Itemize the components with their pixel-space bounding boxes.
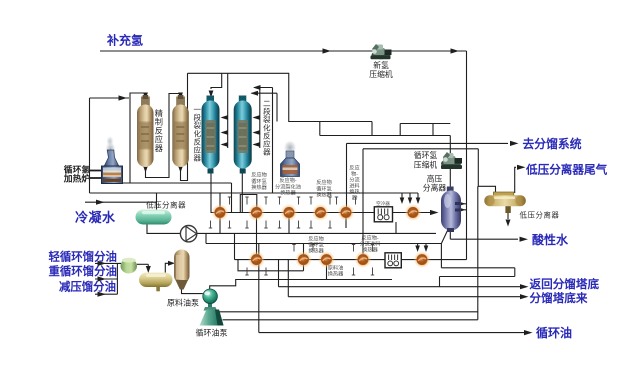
wire: TR2 bottom outlet down	[240, 168, 245, 175]
wire: E8 bottom stub	[326, 265, 328, 280]
svg-text:减压馏分油: 减压馏分油	[59, 279, 116, 293]
wire: exchanger train line row 1	[211, 212, 431, 214]
exchanger E4 effluent/recycle-H2 exchanger	[312, 204, 329, 221]
vessel V3 feed tank (horizontal)	[139, 273, 173, 292]
svg-text:酸性水: 酸性水	[532, 232, 569, 247]
svg-text:器: 器	[194, 154, 202, 163]
air cooler AC2 low-pressure air cooler	[385, 253, 401, 268]
svg-text:反: 反	[155, 125, 163, 135]
wire: three drop arrows into last exchanger	[401, 193, 403, 198]
wire: exchanger train line row 2	[235, 259, 467, 261]
wire: LP separator bottom outlet	[507, 210, 509, 219]
wire: riser into low-pressure flash drum	[156, 193, 158, 210]
wire: header jog down to mid header	[319, 122, 321, 136]
svg-text:分馏塔底来: 分馏塔底来	[530, 291, 588, 305]
wire: recycle oil line (循环油)	[258, 244, 260, 333]
wire: furnace inlet stubs	[90, 170, 102, 172]
exchanger E5 effluent/feed exchanger	[337, 204, 354, 221]
wire: air cooler 1 bottom connector	[395, 222, 397, 233]
furnace F2 feed heater	[281, 138, 300, 177]
svg-text:换热器: 换热器	[316, 191, 332, 199]
wire: long effluent header y=193	[90, 192, 419, 194]
wire: reactor feed line with arrow	[90, 97, 130, 99]
wire: charge pump line to exchangers	[210, 280, 392, 290]
furnace F1 recycle hydrogen heater (循环氢加热炉)	[102, 135, 123, 184]
vessel V6 low pressure separator (horizontal, 低压分离器)	[484, 192, 526, 213]
wire: bottom right sub-headers	[441, 267, 514, 269]
wire: loop over exchanger E2	[240, 195, 256, 213]
compressor C2 recycle hydrogen compressor (循环氢压缩机)	[441, 152, 462, 169]
svg-text:加热炉: 加热炉	[63, 173, 91, 184]
svg-text:器: 器	[155, 144, 163, 153]
svg-text:低压分离器尾气: 低压分离器尾气	[525, 163, 608, 177]
reactor TR1 first-stage hydrocracking reactor (一段裂化反应器)	[202, 96, 220, 174]
wire: row2 sub-line y=270.8	[238, 260, 304, 271]
svg-text:换热: 换热	[349, 188, 360, 196]
svg-text:反应物: 反应物	[251, 171, 267, 179]
reactor TR2 second-stage hydrocracking reactor (二段裂化反应器)	[234, 96, 252, 174]
svg-text:反应物-: 反应物-	[361, 234, 379, 242]
wire: TR1 bottom outlet down to exchanger train	[209, 168, 214, 175]
svg-text:反应物-: 反应物-	[279, 176, 297, 184]
vessel V5 high pressure separator (高压分离器)	[441, 187, 461, 233]
wire: recycle oil pump lines	[219, 311, 478, 313]
wire: compressor suction box	[400, 123, 450, 125]
svg-text:轻循环馏分油: 轻循环馏分油	[49, 249, 117, 263]
svg-text:压缩机: 压缩机	[414, 160, 438, 170]
svg-text:高压: 高压	[427, 174, 443, 184]
exchanger E2 reactor-effluent/recycle-H2 exchanger	[248, 204, 265, 221]
svg-text:低压分离器: 低压分离器	[520, 211, 560, 220]
svg-text:分流: 分流	[349, 176, 359, 184]
wire: quench line TR2 with injection arrows	[259, 88, 261, 149]
wire: R1 top inlet arrow	[145, 93, 147, 94]
air cooler AC1 high-pressure air cooler	[374, 207, 392, 222]
wire: furnace outlet header	[122, 182, 232, 184]
exchanger E8 effluent/fractionator-bottoms exchanger	[295, 251, 312, 268]
wire: feed manifold vertical	[116, 263, 118, 294]
exchanger E1 effluent exchanger	[211, 204, 228, 221]
svg-text:制: 制	[155, 117, 163, 127]
svg-text:循环氢: 循环氢	[414, 150, 438, 160]
svg-text:压缩机: 压缩机	[369, 69, 393, 79]
wire: heavy cycle oil feed (重循环馏分油)	[95, 278, 117, 280]
tiny label: 反应物循环氢换热器 (row1 left)	[251, 164, 380, 278]
drum V2 feed surge drum	[121, 258, 138, 274]
exchanger E3 effluent exchanger	[280, 204, 297, 221]
wire: return-to-fractionator line (返回分馏塔底)	[278, 260, 280, 287]
svg-text:低压分离器: 低压分离器	[146, 200, 186, 210]
wire: inter-row connectors	[219, 193, 221, 207]
wire: flash drum bottom outlet to charge pump	[147, 224, 181, 233]
wire: R2 bottom outlet riser to cracking header	[178, 166, 183, 173]
svg-text:分流进料: 分流进料	[360, 239, 381, 247]
wire: to-fractionation line (去分馏系统)	[347, 142, 509, 144]
svg-text:空冷器: 空冷器	[376, 200, 390, 207]
wire: compressor suction/discharge verticals	[449, 136, 451, 157]
svg-text:原料油泵: 原料油泵	[167, 298, 199, 308]
wire: drop arrows into E10	[417, 244, 419, 247]
wire: low pressure separator feed line	[363, 148, 478, 150]
wire: HP separator gas nozzles	[458, 203, 467, 205]
wire: exchanger tie-in stubs	[209, 197, 374, 275]
wire: surge vessel outlet to feed pump	[182, 289, 203, 294]
wire: LP separator offgas riser (低压分离器尾气)	[515, 167, 516, 193]
svg-text:原料油: 原料油	[328, 264, 344, 272]
svg-text:换热器: 换热器	[308, 246, 324, 254]
wire: feed drop into cracking reactor TR1	[211, 73, 222, 89]
svg-text:反应物: 反应物	[316, 178, 332, 186]
svg-text:补充氢: 补充氢	[106, 33, 143, 48]
pump P1 condensate pump symbol	[180, 226, 196, 242]
svg-text:分流裂化油: 分流裂化油	[275, 182, 301, 190]
svg-text:循环氢: 循环氢	[251, 177, 267, 185]
wire: R1 bottom outlet to R2 top	[143, 166, 148, 173]
wire: light cycle oil feed (轻循环馏分油)	[95, 262, 121, 264]
pump P2 feed pump (原料油泵)	[203, 289, 218, 311]
wire: parallel line y=243.5	[205, 233, 207, 243]
wire: furnace outlet riser to reactor R1	[130, 93, 146, 183]
svg-text:换热器: 换热器	[328, 269, 344, 277]
wire: from-fractionator-bottom line (分馏塔底来)	[287, 260, 289, 297]
wire: HP separator liquid drop	[441, 231, 447, 268]
wire: riser from make-up header down right side	[466, 51, 468, 260]
wire: quench line TR1 with injection arrows	[227, 73, 229, 148]
svg-text:器: 器	[263, 148, 271, 157]
wire: charge pump discharge long line	[196, 232, 436, 234]
wire: TR2 top inlet line 2	[252, 92, 278, 94]
wire: drum outlet with down arrow	[137, 263, 149, 265]
svg-text:进料: 进料	[349, 182, 359, 190]
svg-text:循环氢: 循环氢	[316, 184, 332, 192]
reactor R1 refining reactor (精制反应器) vessel	[137, 95, 154, 167]
svg-text:换热器: 换热器	[251, 183, 267, 191]
svg-text:应: 应	[155, 134, 163, 144]
svg-text:冷凝水: 冷凝水	[75, 210, 116, 225]
exchanger E9 feed-oil exchanger	[318, 251, 335, 268]
svg-text:新氢: 新氢	[373, 60, 389, 70]
compressor C1 make-up hydrogen compressor (新氢压缩机)	[371, 44, 392, 59]
svg-text:返回分馏塔底: 返回分馏塔底	[530, 277, 600, 291]
wire: make-up hydrogen header (补充氢 line)	[100, 50, 467, 52]
wire: first-stage header across reactor tops	[188, 73, 373, 121]
exchanger E10 effluent/feed exchanger	[354, 251, 371, 268]
pump P3 recycle oil pump (循环油泵)	[200, 310, 224, 326]
svg-text:精: 精	[155, 108, 163, 118]
drum V1 low pressure flash drum (低压分离器)	[136, 210, 172, 225]
vessel V4 feed stripper column	[174, 250, 190, 290]
exchanger E7 second-train exchanger	[248, 251, 265, 268]
svg-text:换热器: 换热器	[280, 189, 296, 197]
svg-text:去分馏系统: 去分馏系统	[523, 137, 582, 151]
svg-text:循环油泵: 循环油泵	[196, 328, 228, 338]
wire: mid header to recycle compressor	[320, 135, 451, 137]
wire: HP separator bottom to sour water (酸性水)	[449, 230, 451, 239]
svg-text:重循环馏分油: 重循环馏分油	[49, 264, 117, 278]
exchanger E11 low-pressure train cooler	[413, 251, 430, 268]
svg-text:物-: 物-	[351, 170, 358, 178]
svg-text:循环油: 循环油	[536, 325, 572, 340]
svg-text:循环氢: 循环氢	[308, 240, 324, 248]
wire: vacuum distillate feed (减压馏分油)	[95, 293, 117, 295]
wire: left recycle downcomer	[89, 98, 91, 193]
reactor R2 second refining vessel	[172, 95, 189, 167]
wire: TR2 top inlet line 1	[254, 87, 273, 89]
svg-text:反应: 反应	[349, 164, 359, 172]
svg-text:换热器: 换热器	[362, 245, 378, 253]
wire: condensate line (冷凝水)	[85, 201, 157, 203]
exchanger E6 final effluent cooler	[404, 204, 421, 221]
svg-text:分离器: 分离器	[423, 183, 447, 193]
svg-text:器: 器	[352, 195, 358, 202]
svg-text:反应物: 反应物	[308, 235, 324, 243]
wire: arrow into high pressure separator	[430, 210, 439, 215]
wire: tank to surge vessel arrow	[165, 263, 169, 274]
